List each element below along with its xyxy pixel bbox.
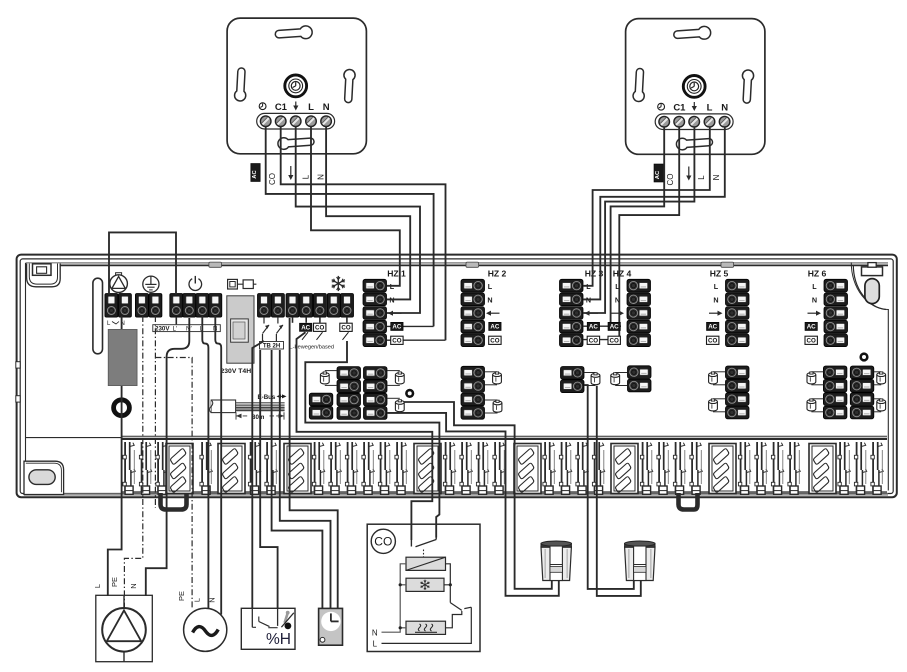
svg-text:80m: 80m: [252, 414, 265, 421]
svg-text:230V: 230V: [155, 326, 170, 333]
mains fuse holder: [227, 296, 254, 363]
room thermostat RT2 (right): [626, 19, 765, 155]
svg-text:L: L: [308, 102, 314, 113]
actuator terminals under HZ4: [628, 366, 652, 392]
zone terminal block HZ 1: [363, 268, 406, 346]
CO box internal wiring: [372, 564, 471, 649]
hinge tabs on top edge: [209, 262, 734, 267]
zone terminal block HZ 3: [560, 268, 604, 346]
wire pump PE (dash-dot): [124, 316, 142, 608]
svg-text:CO: CO: [392, 338, 401, 345]
actuator connector modules (narrow): [123, 442, 883, 494]
svg-text:L: L: [301, 174, 310, 179]
thermal actuator M1: [541, 541, 571, 581]
cool mode snowflake symbol: [332, 276, 345, 291]
sensor ring left: [406, 390, 413, 397]
svg-text:CO: CO: [490, 338, 499, 345]
actuator terminals under HZ3: [561, 367, 585, 393]
rail marks on left edge: [16, 362, 20, 402]
plug cube HZ6 right lower: [874, 399, 886, 412]
earth symbol on controller: [143, 276, 159, 292]
plug cube c: [387, 398, 404, 413]
pump output terminals L N: [105, 294, 131, 327]
timer device: [319, 608, 343, 645]
wire RT1 sensor to HZ1 arrow row: [296, 126, 420, 313]
transformer block: [108, 329, 137, 385]
230V supply terminals: [170, 294, 222, 318]
zone HZ 5 AC badge: [707, 322, 719, 330]
actuator connector row top edge: [26, 436, 888, 492]
zone terminal block HZ 4: [611, 268, 651, 346]
zone HZ 3 CO badge: [587, 336, 599, 344]
wire RT1 CO to HZ1 CO row: [281, 126, 446, 340]
wire humidistat 1: [252, 341, 264, 608]
svg-text:N: N: [372, 628, 378, 637]
DIN rail clip left: [161, 493, 187, 510]
svg-text:N: N: [713, 296, 718, 305]
RT2 terminal wire labels: [654, 164, 721, 186]
svg-text:CO: CO: [666, 174, 675, 186]
plug cube HZ3: [584, 373, 600, 386]
plug cube HZ6 left upper: [807, 372, 823, 385]
HZ3-HZ4 AC row link: [583, 325, 621, 327]
svg-text:CO: CO: [807, 338, 816, 345]
mains wire labels: [177, 591, 217, 603]
controller top-left corner inset with screw tab: [27, 264, 61, 287]
svg-text:AC: AC: [655, 170, 661, 179]
plug cube a: [320, 371, 337, 386]
zone HZ 6 AC badge: [805, 322, 817, 330]
wire RT1 L to HZ1 L row: [311, 126, 400, 286]
zone HZ 4 CO badge: [608, 336, 620, 344]
svg-text:AC: AC: [301, 325, 310, 332]
svg-text:N: N: [208, 597, 217, 602]
mains supply source: [184, 608, 227, 651]
svg-text:%H: %H: [266, 631, 291, 648]
svg-text:HZ 5: HZ 5: [710, 268, 729, 278]
svg-text:AC: AC: [589, 324, 598, 331]
svg-text:HZ 4: HZ 4: [613, 268, 632, 278]
svg-text:N: N: [129, 583, 138, 588]
plug cube HZ2 upper: [485, 372, 502, 385]
AC / CO badges of input row: [300, 323, 353, 340]
plug cube HZ2 lower: [485, 400, 502, 413]
svg-text:L: L: [812, 282, 817, 291]
svg-text:HZ 6: HZ 6: [808, 268, 827, 278]
CO box cooling element: [406, 578, 444, 591]
wire actuator A1 b: [387, 413, 559, 596]
TB 2H label box: [260, 342, 284, 350]
svg-text:CO: CO: [610, 338, 619, 345]
pump unit: [96, 595, 153, 661]
zone HZ 3 AC badge: [587, 322, 599, 330]
wire RT2 sensor to HZ3 arrow row: [583, 127, 694, 314]
svg-text:N: N: [812, 296, 817, 305]
svg-text:N: N: [487, 296, 492, 305]
svg-text:AC: AC: [252, 170, 258, 179]
svg-text:C1: C1: [673, 103, 686, 114]
zone terminal block HZ 5: [709, 268, 749, 346]
svg-text:230V T4H: 230V T4H: [221, 368, 252, 375]
svg-text:N: N: [721, 103, 728, 114]
wire CO box right: [305, 341, 439, 538]
transformer block (cover): [108, 329, 137, 385]
wire timer 3: [290, 318, 338, 608]
svg-text:L: L: [707, 103, 713, 114]
actuator terminals under HZ5: [726, 366, 750, 419]
plug cube HZ6 right upper: [874, 372, 886, 385]
svg-text:L: L: [93, 584, 102, 588]
svg-text:N: N: [712, 174, 721, 180]
wire RT2 CO to HZ3/HZ4 CO row: [619, 127, 679, 340]
wire timer 2: [280, 350, 331, 608]
actuator terminals under HZ2: [461, 366, 485, 419]
wire pump L: [108, 316, 122, 596]
HZ1 AC row link: [387, 325, 434, 327]
svg-text:AC: AC: [392, 324, 401, 331]
zone HZ 2 CO badge: [489, 336, 501, 344]
earth terminals: [135, 294, 162, 318]
E-Bus ribbon cable: [210, 400, 285, 413]
wire actuator A2 a: [584, 385, 634, 589]
wire RT1 clock to HZ1 AC row: [266, 126, 434, 326]
cable gland ring left: [114, 400, 130, 416]
CO box heating element: [406, 621, 446, 634]
pump wire labels: [93, 577, 138, 589]
actuator connector modules (keyed/hatched): [166, 444, 836, 494]
svg-text:CO: CO: [589, 338, 598, 345]
CO box filter element: [406, 557, 446, 570]
zone HZ 5 CO badge: [707, 336, 719, 344]
power symbol on controller: [189, 276, 202, 291]
230V L N label box: [153, 325, 221, 333]
svg-text:L: L: [193, 598, 202, 602]
CO box relay contact: [411, 538, 436, 558]
wire mains PE (dash-dot): [155, 358, 192, 610]
svg-text:AC: AC: [610, 324, 619, 331]
plug cube HZ6 left lower: [807, 399, 823, 412]
wire mains N: [215, 316, 221, 615]
controller top-right corner inset with screw tab and slot: [851, 263, 888, 310]
svg-text:HZ 1: HZ 1: [387, 268, 406, 278]
plug cube HZ4: [611, 373, 628, 386]
svg-text:N: N: [316, 174, 325, 180]
zone HZ 2 AC badge: [489, 322, 501, 330]
wire pump N: [146, 318, 190, 596]
wire RT1 N to HZ1 N row: [326, 126, 410, 299]
svg-text:C1: C1: [275, 102, 288, 113]
svg-text:CO: CO: [374, 535, 392, 549]
svg-text:CO: CO: [268, 173, 277, 185]
svg-text:HZ 2: HZ 2: [488, 268, 507, 278]
bus terminal cluster left: [309, 367, 387, 420]
heat/cool input terminal row: [258, 294, 354, 318]
svg-text:AC: AC: [490, 324, 499, 331]
svg-text:N: N: [323, 102, 330, 113]
sensor ring right: [861, 354, 868, 361]
bridge jumper pump L: [109, 232, 176, 294]
plug cube HZ5 lower: [709, 399, 726, 412]
wire timer 1: [272, 350, 323, 608]
zone HZ 6 CO badge: [805, 336, 817, 344]
controller bottom-left cable entry inset: [24, 461, 64, 494]
plug cube HZ5 upper: [709, 372, 726, 385]
svg-text:CO: CO: [341, 325, 350, 332]
svg-text:AC: AC: [807, 324, 816, 331]
zone terminal block HZ 6: [808, 268, 848, 346]
svg-text:L: L: [697, 175, 706, 180]
terminal stubs: [176, 317, 347, 324]
svg-text:L: L: [373, 640, 378, 649]
controller housing outer frame: [17, 255, 897, 498]
wire CO box left: [297, 332, 433, 540]
HZ3-HZ4 CO row link: [583, 339, 621, 341]
zone HZ 4 AC badge: [608, 322, 620, 330]
fuse symbol: [228, 279, 257, 289]
svg-text:L: L: [488, 282, 493, 291]
svg-text:L: L: [714, 282, 719, 291]
E-Bus label: [258, 394, 287, 401]
DIN rail clip right: [679, 493, 698, 510]
pump symbol on controller: [110, 273, 128, 293]
RT1 terminal wire labels: [251, 164, 326, 186]
HZ4 badge interlink: [610, 326, 612, 330]
svg-text:TB 2H: TB 2H: [263, 344, 280, 350]
svg-text:CO: CO: [708, 338, 717, 345]
wire actuator A2 b: [597, 386, 641, 596]
wire RT2 N to HZ3 N row: [583, 127, 725, 300]
svg-text:AC: AC: [708, 324, 717, 331]
zone HZ 1 AC badge: [391, 322, 403, 330]
plug cube b: [387, 371, 404, 386]
wire earth PE (dash-dot): [154, 316, 156, 508]
actuator terminals under HZ6: [823, 366, 873, 419]
80m length marking: [236, 412, 284, 421]
CO changeover wiring box: [367, 524, 480, 651]
wire actuator A1 a: [404, 402, 552, 589]
left vertical slot: [93, 278, 103, 354]
zone HZ 1 CO badge: [391, 336, 403, 344]
room thermostat RT1 (left): [227, 18, 366, 154]
wire RT2 clock to HZ3/HZ4 AC row: [611, 127, 665, 327]
changeover relay contacts: [263, 317, 284, 341]
humidistat %H box: [241, 608, 295, 649]
wire RT2 L to HZ3 L row: [583, 127, 710, 286]
svg-text:PE: PE: [177, 591, 186, 601]
svg-text:CO: CO: [315, 325, 324, 332]
wire humidistat 2: [260, 350, 277, 608]
thermal actuator M2: [625, 541, 655, 581]
zone terminal block HZ 2: [461, 268, 507, 346]
wire mains L: [202, 316, 208, 612]
HZ1 CO row link: [387, 339, 446, 341]
svg-text:PE: PE: [110, 577, 119, 587]
